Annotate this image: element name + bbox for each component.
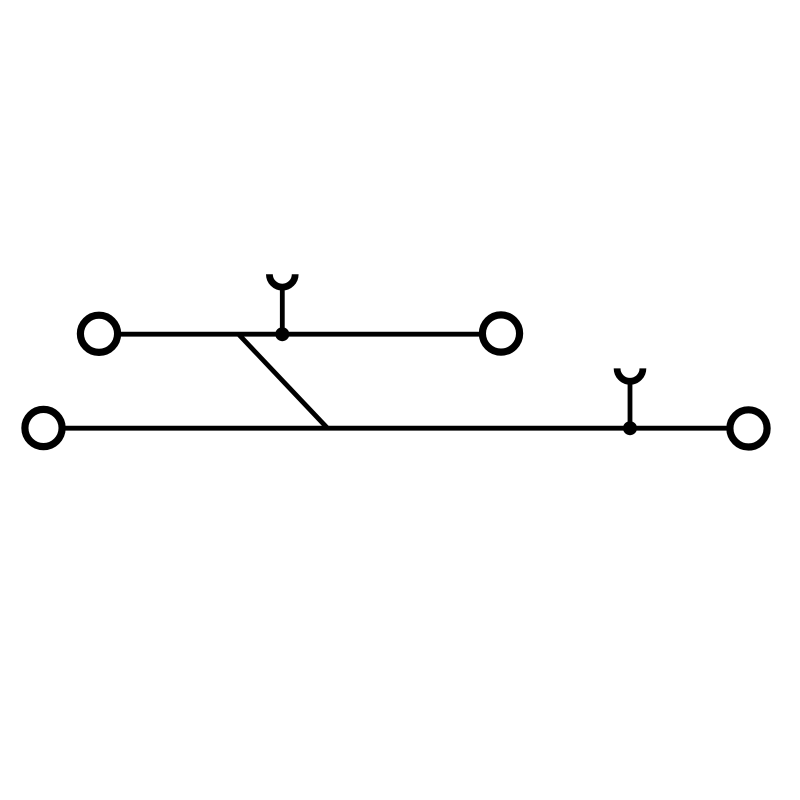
- terminal circle P1 (upper level, left): [80, 315, 117, 352]
- wire: test-socket stub (lower): [628, 380, 633, 428]
- junction dot on upper wire: [275, 327, 289, 341]
- junction dot on lower wire: [623, 421, 637, 435]
- terminal circle P2 (upper level, right): [482, 315, 519, 352]
- wire: lower level conductor: [63, 426, 730, 431]
- test socket arc TP2 (lower): [617, 368, 643, 381]
- wire: test-socket stub (upper): [280, 286, 285, 334]
- wire: cross-connection diagonal between levels: [239, 334, 328, 428]
- test socket arc TP1 (upper): [269, 274, 295, 287]
- terminal circle P3 (lower level, left): [25, 409, 62, 446]
- terminal circle P4 (lower level, right): [730, 410, 767, 447]
- wire: upper level conductor: [118, 332, 482, 337]
